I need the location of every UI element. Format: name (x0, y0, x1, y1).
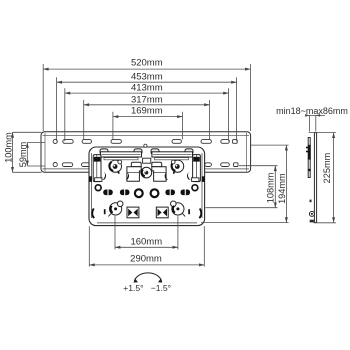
plate edge mark left (89, 176, 92, 182)
rail top slot row (53, 139, 237, 143)
dim 453mm (57, 77, 237, 141)
rail fold line top (43, 135, 250, 137)
knob left (109, 160, 121, 174)
small ring left (95, 185, 101, 191)
edge tick right (188, 209, 190, 214)
dim 317mm (84, 100, 210, 139)
wall rail outline (41, 132, 251, 173)
rail end fold left (44, 133, 46, 171)
dim 413mm (65, 88, 229, 141)
top bar right (152, 152, 193, 157)
rail bottom slot row (53, 163, 238, 167)
peg 1 (100, 149, 108, 154)
top bar left (101, 152, 142, 157)
centre hub block (143, 158, 151, 163)
svg-text:520mm: 520mm (131, 57, 163, 68)
svg-text:108mm: 108mm (266, 172, 276, 203)
dim 194mm right (201, 145, 289, 223)
comma arrow 4 (187, 172, 191, 180)
rail fold line bottom (43, 168, 250, 170)
svg-text:453mm: 453mm (131, 71, 163, 82)
svg-text:169mm: 169mm (131, 106, 163, 117)
dumbbell 4 (181, 190, 191, 196)
svg-text:160mm: 160mm (130, 236, 162, 247)
rail end fold right (246, 133, 248, 171)
plate inner bottom edge (97, 222, 197, 224)
svg-text:290mm: 290mm (130, 254, 162, 265)
plate top tiny hole (144, 144, 147, 147)
dim 160mm bottom (115, 216, 178, 250)
dumbbell 3 (165, 190, 175, 196)
big ring left (135, 189, 143, 197)
plate edge mark right (202, 176, 205, 182)
dumbbell 1 (103, 190, 113, 196)
dim 59mm left (27, 142, 45, 166)
edge curl left (92, 209, 94, 219)
dumbbell 2 (120, 190, 130, 196)
bracket plate outline (89, 147, 205, 226)
comma arrow 2 (125, 172, 129, 180)
peg 3 (151, 149, 159, 154)
dim 169mm (113, 112, 183, 140)
edge curl right (199, 209, 201, 219)
clip A (127, 162, 141, 181)
left arm (93, 155, 102, 182)
side view hook circle (309, 211, 314, 216)
comma arrow 3 (165, 172, 169, 180)
dim 520mm (43, 64, 250, 131)
small ring right (192, 185, 198, 191)
side view screw stack (308, 145, 311, 160)
comma arrow 1 (102, 172, 106, 180)
svg-text:413mm: 413mm (131, 83, 163, 94)
buckle left (127, 207, 139, 218)
big ring right (151, 189, 159, 197)
hook knob right (171, 201, 186, 216)
right arm (192, 155, 201, 182)
side view profile (308, 133, 316, 223)
svg-text:+1.5°: +1.5° (123, 283, 143, 293)
svg-text:194mm: 194mm (277, 173, 287, 204)
edge tick left (104, 209, 106, 214)
dim 290mm bottom (89, 226, 204, 266)
svg-text:225mm: 225mm (322, 152, 332, 183)
svg-text:317mm: 317mm (131, 95, 163, 106)
clip B (152, 162, 166, 181)
tilt arc (134, 273, 161, 282)
dim 108mm right (206, 166, 278, 208)
dim 225mm (309, 133, 336, 223)
side view depth dim (306, 115, 326, 131)
plate inner right edge (201, 153, 203, 218)
svg-text:min18~max86mm: min18~max86mm (276, 106, 348, 116)
knob right (171, 160, 183, 174)
svg-text:−1.5°: −1.5° (151, 283, 171, 293)
peg 2 (134, 149, 142, 154)
peg 4 (185, 149, 193, 154)
centre circle (141, 167, 152, 178)
svg-text:100mm: 100mm (3, 132, 13, 163)
side view foot (310, 220, 314, 223)
hook knob left (108, 201, 123, 216)
svg-text:59mm: 59mm (18, 141, 28, 167)
buckle right (156, 207, 168, 218)
plate inner left edge (91, 153, 93, 218)
dim 100mm left (13, 132, 42, 172)
